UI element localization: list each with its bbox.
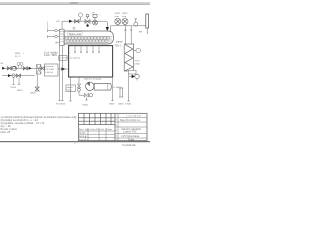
valve V1 — [75, 20, 80, 23]
svg-text:DN15: DN15 — [11, 87, 17, 89]
svg-text:kond.: kond. — [67, 90, 73, 92]
left supply pipe — [2, 67, 42, 69]
exchanger spec box — [45, 64, 59, 76]
svg-text:SV DN25: SV DN25 — [56, 104, 66, 106]
svg-text:DN25: DN25 — [118, 104, 124, 106]
coil bottom header box — [129, 70, 137, 74]
drain labels — [11, 87, 24, 92]
coil side labels — [135, 61, 142, 66]
pump outlet drop — [85, 97, 88, 100]
check valve drop link — [79, 91, 84, 95]
svg-text:DN32: DN32 — [126, 104, 132, 106]
svg-text:Dát.: Dát. — [101, 128, 105, 131]
drain line with box — [66, 77, 76, 101]
svg-text:čerp.: čerp. — [115, 16, 120, 18]
drain stub D1 — [12, 77, 15, 84]
bottom valve V6 — [35, 87, 39, 91]
title block revision grid — [79, 113, 116, 124]
svg-text:DN40: DN40 — [83, 104, 89, 106]
svg-text:Navr.: Navr. — [79, 128, 84, 131]
pump feed drop — [78, 77, 80, 83]
bottom pipe labels — [109, 104, 132, 106]
svg-text:Novák: Novák — [79, 133, 86, 135]
svg-text:DN25: DN25 — [122, 13, 128, 15]
pump P3 — [12, 66, 16, 70]
svg-text:zásob.: zásob. — [116, 41, 123, 44]
svg-text:a ohrev TÚV: a ohrev TÚV — [123, 131, 137, 134]
svg-text:DN25: DN25 — [30, 93, 36, 95]
fold mark — [74, 142, 76, 145]
stub S4 — [92, 46, 93, 53]
supply arrow — [2, 67, 5, 70]
coil heat exchanger — [124, 44, 133, 71]
return arrow — [8, 74, 11, 77]
svg-text:Stav (Č.Ú.101) 1 a: Stav (Č.Ú.101) 1 a — [120, 119, 140, 122]
svg-text:ÚK: ÚK — [57, 20, 61, 23]
circulation pump — [86, 82, 94, 90]
strainer column — [37, 65, 41, 75]
title block right area lines — [115, 113, 147, 140]
pipe into big rect — [58, 67, 69, 70]
vessel label box — [67, 32, 82, 36]
svg-text:90 °C: 90 °C — [15, 56, 21, 58]
header stub bottom — [56, 41, 60, 43]
ladder segment — [119, 88, 123, 97]
svg-text:6 kW el.: 6 kW el. — [45, 72, 53, 74]
svg-text:Teplá voda: Teplá voda — [69, 32, 82, 36]
svg-text:TÚV 1: TÚV 1 — [115, 45, 122, 48]
pump P1 — [115, 18, 121, 24]
pump labels — [115, 13, 128, 18]
check valve V7 — [77, 84, 80, 91]
return drop — [36, 74, 38, 87]
flow arrow A1 — [69, 20, 73, 23]
svg-text:ohrievač: ohrievač — [45, 65, 54, 68]
vessel shell — [64, 31, 113, 44]
svg-text:ŠKOLA: ŠKOLA — [79, 135, 87, 138]
title block lower-left header text — [79, 120, 118, 142]
instrument TI1 — [78, 13, 82, 21]
svg-text:DN25: DN25 — [115, 13, 121, 15]
pump stems — [118, 24, 125, 25]
three-way valve V2 — [85, 15, 90, 27]
vessel inlet arrow — [106, 22, 109, 31]
svg-text:pozn. 25: pozn. 25 — [1, 131, 11, 134]
sheet top border — [0, 2, 150, 5]
svg-text:DN32: DN32 — [109, 104, 115, 106]
big rectangle (boiler room boundary) — [69, 46, 113, 77]
riser to header — [61, 21, 63, 29]
svg-text:TÚV 400: TÚV 400 — [45, 68, 54, 71]
svg-text:DN15: DN15 — [17, 90, 23, 92]
title block lower-left grid — [79, 128, 116, 141]
instruments I1 — [17, 63, 23, 69]
svg-text:č. p. 25: č. p. 25 — [79, 139, 87, 141]
vessel left header — [60, 29, 65, 45]
pump P2 — [122, 18, 128, 24]
thermometer T1 — [134, 19, 138, 26]
top pipe — [62, 20, 107, 22]
vessel top vent circle — [73, 27, 75, 29]
small connector box — [59, 56, 69, 61]
safety valve group U1 — [93, 14, 98, 25]
svg-text:čerp.: čerp. — [122, 16, 127, 18]
svg-text:Vypr.: Vypr. — [85, 128, 90, 131]
svg-text:Formát A4: Formát A4 — [123, 143, 136, 147]
stub S1 — [74, 46, 75, 53]
stub S2 — [80, 46, 81, 53]
stub S3 — [86, 46, 87, 53]
supply arrow 2 — [29, 67, 32, 70]
svg-text:Scéla: Scéla — [128, 138, 135, 141]
svg-text:EN: EN — [139, 32, 142, 34]
svg-text:VYK 1: VYK 1 — [135, 61, 142, 63]
valve V9 — [41, 67, 45, 71]
top-right pipe — [111, 25, 147, 27]
pump motor body — [94, 83, 111, 90]
cold water downpipes — [59, 46, 64, 101]
svg-text:6 kW - 380V: 6 kW - 380V — [44, 54, 58, 57]
valve V5 — [17, 74, 21, 77]
coil top risers — [124, 26, 133, 44]
notes text block — [1, 116, 78, 134]
svg-text:DN25: DN25 — [135, 63, 141, 65]
expansion tank — [139, 14, 149, 34]
title block frame — [79, 113, 148, 140]
leader line left — [47, 22, 49, 30]
coil downpipe terminator — [127, 100, 130, 102]
title block right area text — [120, 119, 142, 142]
left return pipe — [2, 75, 35, 77]
pump outlet valve V8 — [84, 93, 92, 97]
stub S5 — [98, 46, 99, 53]
coil side thermostat — [134, 48, 141, 53]
svg-text:obehové čerpadlo: obehové čerpadlo — [84, 77, 102, 80]
left pipe labels — [0, 52, 24, 65]
sheet bottom border — [0, 141, 150, 147]
header inlet stub upper — [48, 29, 60, 32]
header inlet stub lower — [48, 35, 60, 38]
coil bottom outlet — [129, 74, 140, 101]
svg-text:č. 2 17 a M 1:25: č. 2 17 a M 1:25 — [126, 115, 142, 117]
label note box upper — [44, 51, 58, 57]
valve V3 — [7, 67, 11, 70]
vessel packing hatch — [65, 36, 113, 43]
valve V4 — [23, 67, 27, 70]
right downpipe from big rect — [111, 77, 114, 101]
riser from vessel right — [110, 26, 112, 32]
svg-text:Podp.: Podp. — [107, 129, 113, 131]
drain stub D2 — [18, 77, 21, 84]
valve circle C1 — [12, 74, 16, 78]
svg-text:DN25: DN25 — [15, 53, 21, 55]
svg-text:el. kotol 2x: el. kotol 2x — [70, 56, 81, 59]
